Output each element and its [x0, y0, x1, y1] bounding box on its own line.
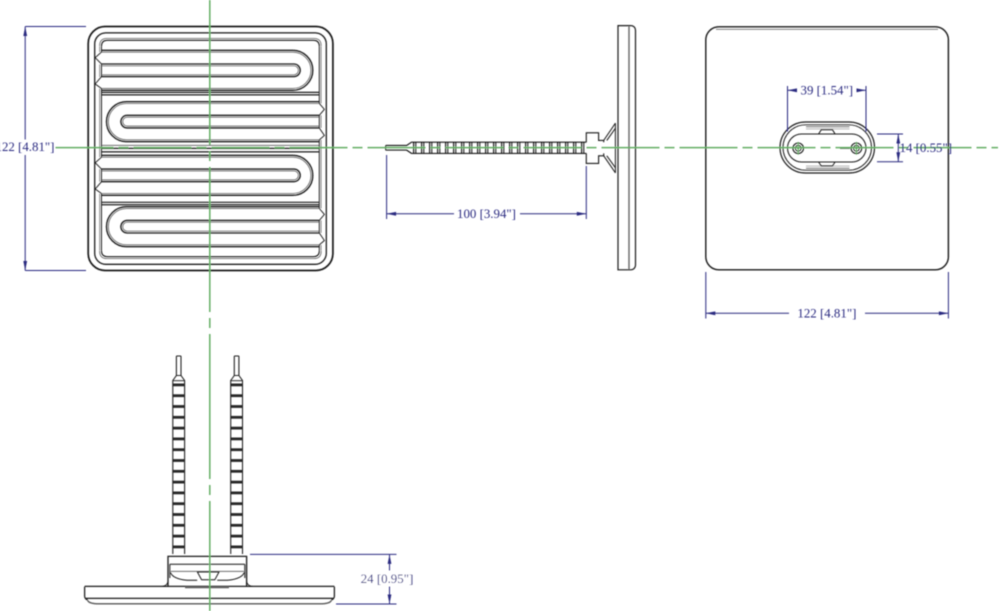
vertical centerline: [209, 0, 211, 611]
heating element groove 2 (U left): [107, 102, 325, 142]
bottom view left pin: [173, 356, 185, 554]
svg-text:122 [4.81"]: 122 [4.81"]: [797, 307, 856, 321]
bottom view plate profile: [85, 586, 335, 603]
dimension 24 bottom: [250, 554, 413, 604]
front plate floor edge: [102, 40, 320, 256]
flange cone: [604, 123, 616, 173]
mid rib: [102, 145, 320, 152]
terminal pin shaft (side view): [386, 142, 587, 153]
svg-text:122 [4.81"]: 122 [4.81"]: [0, 140, 54, 154]
front plate bevel edge: [95, 33, 327, 264]
terminal screws: [793, 142, 862, 155]
svg-text:14 [0.55"]: 14 [0.55"]: [900, 141, 953, 155]
bottom view right pin: [231, 356, 243, 554]
dimension 39 back: [788, 84, 867, 132]
pin ribs (side view): [414, 142, 584, 153]
dimension 100 side: [387, 155, 587, 221]
dimension 14 back: [877, 134, 952, 162]
bottom boss profile: [163, 556, 253, 587]
front plate outer edge: [88, 27, 333, 271]
back plate outline: [706, 27, 949, 270]
heating element groove 1 (U right): [95, 50, 313, 90]
svg-text:39 [1.54"]: 39 [1.54"]: [801, 84, 854, 98]
pin mounting bracket: [586, 133, 603, 164]
dimension 122 front: [0, 27, 86, 271]
ridge between groove 3 and 4: [102, 202, 320, 205]
svg-text:24 [0.95"]: 24 [0.95"]: [361, 572, 414, 586]
svg-text:100 [3.94"]: 100 [3.94"]: [457, 207, 516, 221]
heating element groove 3 (U right): [95, 155, 313, 195]
side view plate profile: [618, 26, 636, 270]
floor edge left verticals: [100, 46, 102, 250]
ridge between groove 1 and 2: [102, 92, 320, 95]
heating element groove 4 (U left): [107, 207, 325, 247]
floor edge right verticals: [319, 46, 321, 250]
terminal boss stadium: [780, 122, 875, 173]
terminal link dash: [840, 147, 850, 149]
boss clip tabs: [806, 127, 850, 168]
back plate top edge highlight: [716, 28, 938, 30]
front plate floor outer highlight: [100, 38, 322, 258]
dimension 122 back: [706, 272, 949, 321]
horizontal centerline: [56, 147, 999, 149]
